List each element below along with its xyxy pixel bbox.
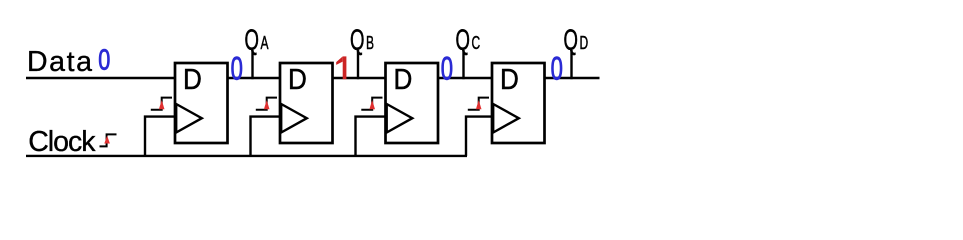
clock pin triangle (U2) xyxy=(281,104,307,133)
svg-text:0: 0 xyxy=(551,50,563,86)
wire: U1 Q to U2 D xyxy=(227,77,281,79)
wire: U4 Q output xyxy=(544,77,600,79)
rising-edge symbol (U2 clock) xyxy=(256,98,277,110)
value label: Data = 0 (blue) xyxy=(98,45,110,77)
pin label D (U1) xyxy=(183,63,202,96)
value label: QB = 1 (red) xyxy=(336,56,346,79)
svg-text:Clock: Clock xyxy=(28,126,96,158)
net label QC xyxy=(456,25,481,57)
value label: QD = 0 (blue) xyxy=(551,50,563,86)
wire: clock tap to U3 xyxy=(356,117,386,156)
svg-text:D: D xyxy=(183,63,202,96)
node QA tick xyxy=(251,50,253,79)
svg-text:D: D xyxy=(500,63,519,96)
svg-text:Q: Q xyxy=(456,25,470,57)
wire: clock tap to U2 xyxy=(251,117,281,156)
pin label D (U2) xyxy=(288,63,307,96)
net label QB xyxy=(350,25,374,57)
rising-edge symbol at Clock label xyxy=(100,134,117,146)
svg-text:C: C xyxy=(472,34,481,54)
node QC tick xyxy=(462,50,464,79)
net label: Clock xyxy=(28,126,96,158)
pin label D (U3) xyxy=(394,63,413,96)
flip-flop U3 body xyxy=(386,63,439,143)
svg-text:Data: Data xyxy=(27,46,94,78)
svg-text:0: 0 xyxy=(98,45,110,77)
flip-flop U2 body xyxy=(280,63,333,143)
wire: Data input net xyxy=(26,77,176,79)
svg-text:0: 0 xyxy=(231,50,243,86)
node QD tick xyxy=(570,50,572,79)
flip-flop U4 body xyxy=(492,63,545,143)
svg-text:Q: Q xyxy=(564,25,578,57)
clock pin triangle (U4) xyxy=(493,104,519,133)
svg-text:Q: Q xyxy=(245,25,259,57)
wire: U2 Q to U3 D xyxy=(332,77,387,79)
net label: Data xyxy=(27,46,94,78)
svg-text:D: D xyxy=(288,63,307,96)
wire: clock tap to U1 xyxy=(145,117,175,156)
rising-edge red arrow at Clock label xyxy=(104,136,110,144)
svg-text:Q: Q xyxy=(350,25,364,57)
svg-text:A: A xyxy=(261,34,269,54)
rising-edge red arrow (U4 clock) xyxy=(476,100,482,109)
node QB tick xyxy=(357,50,359,79)
net label QA xyxy=(245,25,269,57)
svg-text:D: D xyxy=(394,63,413,96)
value label: QC = 0 (blue) xyxy=(441,50,453,86)
flip-flop U1 body xyxy=(175,63,228,143)
svg-text:D: D xyxy=(580,34,589,54)
rising-edge symbol (U4 clock) xyxy=(468,98,489,110)
pin label D (U4) xyxy=(500,63,519,96)
rising-edge symbol (U3 clock) xyxy=(361,98,382,110)
value label: QA = 0 (blue) xyxy=(231,50,243,86)
rising-edge red arrow (U1 clock) xyxy=(159,100,165,109)
wire: U3 Q to U4 D xyxy=(438,77,493,79)
clock pin triangle (U3) xyxy=(387,104,413,133)
svg-text:B: B xyxy=(366,34,374,54)
wire: Clock rail xyxy=(26,155,467,157)
net label QD xyxy=(564,25,589,57)
svg-text:0: 0 xyxy=(441,50,453,86)
rising-edge red arrow (U3 clock) xyxy=(369,100,375,109)
rising-edge symbol (U1 clock) xyxy=(151,98,172,110)
rising-edge red arrow (U2 clock) xyxy=(264,100,270,109)
clock pin triangle (U1) xyxy=(176,104,202,133)
wire: clock tap to U4 xyxy=(466,117,492,156)
